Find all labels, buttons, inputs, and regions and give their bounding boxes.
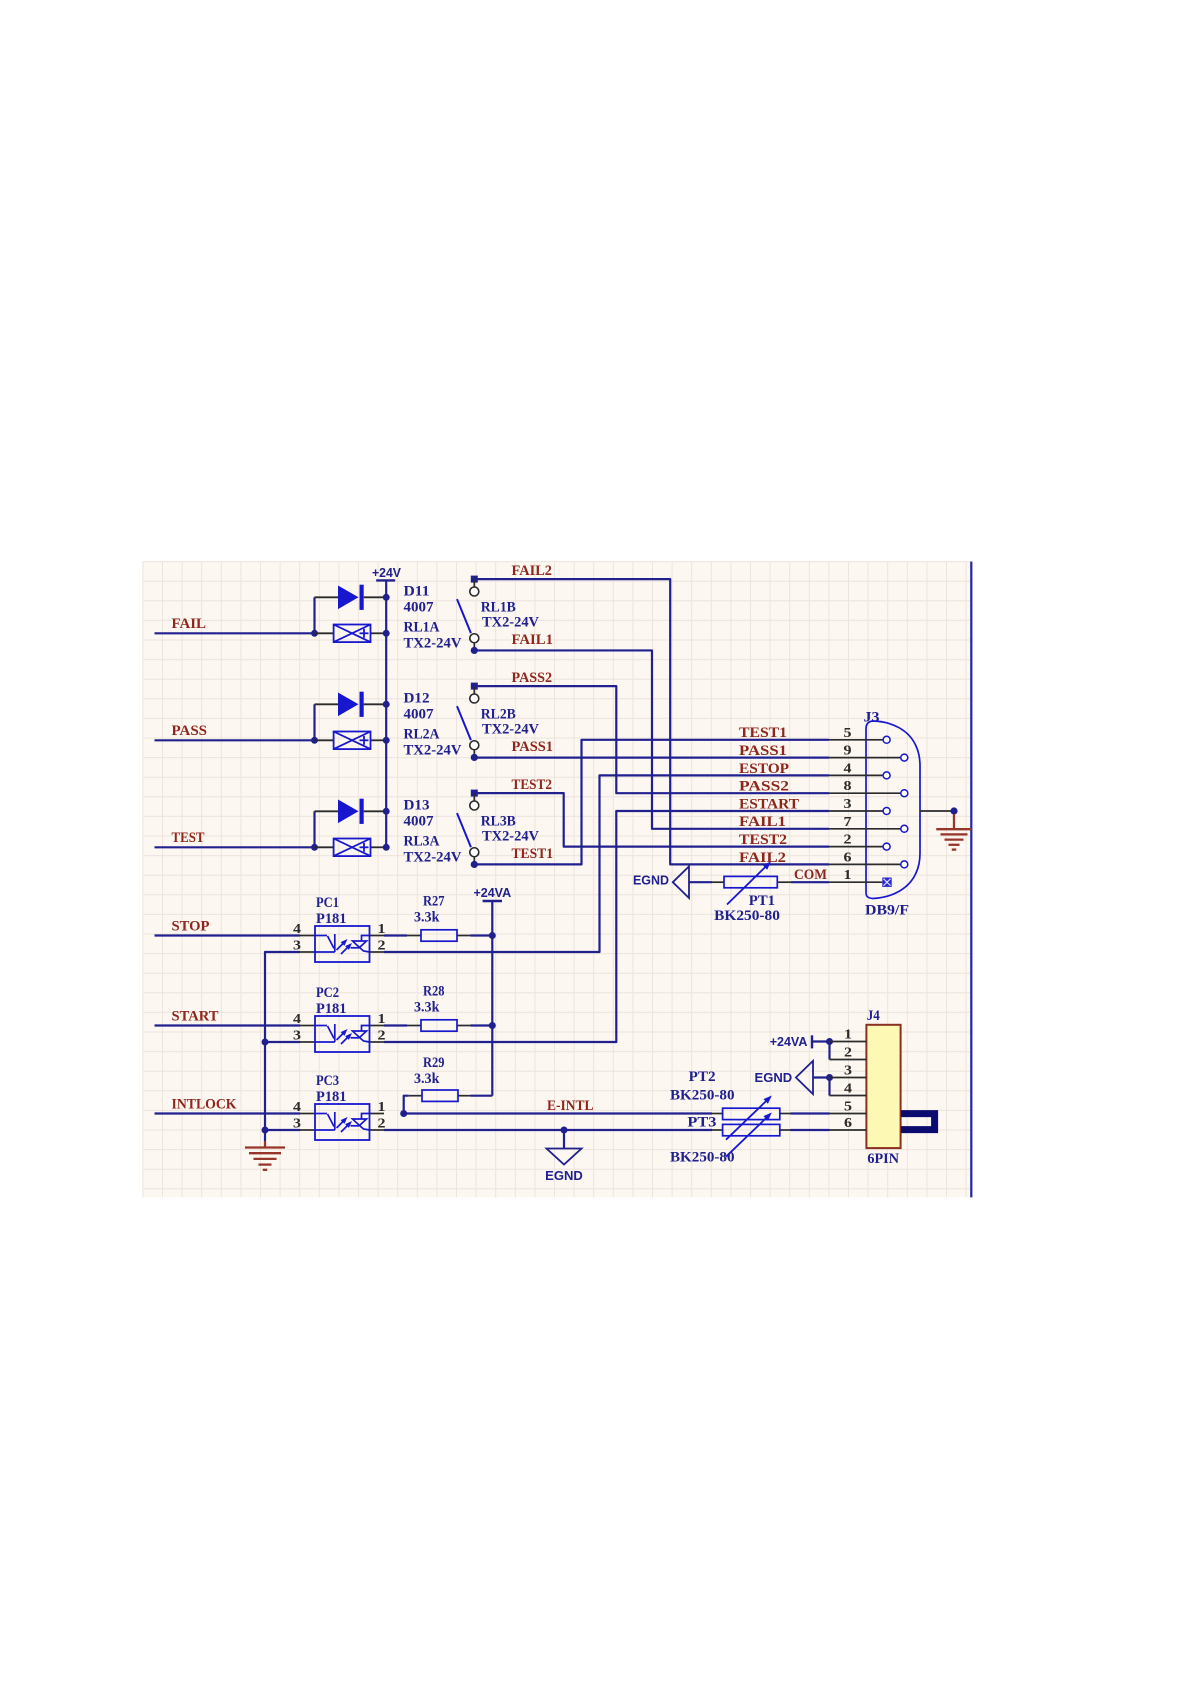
wire PASS input xyxy=(155,739,315,741)
wire EGND to PT1 xyxy=(689,881,712,883)
power EGND (bottom) xyxy=(563,1130,565,1149)
wire PASS diode branch xyxy=(313,704,315,740)
svg-text:TX2-24V: TX2-24V xyxy=(404,850,462,866)
node rail-D11 xyxy=(383,594,390,601)
pin 3 J3 xyxy=(829,797,890,815)
svg-text:PT2: PT2 xyxy=(689,1069,716,1085)
svg-text:8: 8 xyxy=(844,779,852,794)
svg-text:TEST1: TEST1 xyxy=(739,725,787,741)
node TEST junction xyxy=(311,844,318,851)
wire PASS1 xyxy=(474,756,829,758)
wire +24V rail xyxy=(385,580,387,847)
node EGND junction xyxy=(561,1127,568,1134)
varistor PT3 pins xyxy=(712,1129,723,1131)
wire E-INTL tap to R29 xyxy=(404,1096,409,1114)
svg-text:E-INTL: E-INTL xyxy=(547,1098,594,1114)
svg-text:R28: R28 xyxy=(423,984,445,1000)
svg-text:4: 4 xyxy=(293,922,301,937)
svg-text:2: 2 xyxy=(844,1046,852,1061)
wire J3 shield to earth xyxy=(920,810,954,812)
svg-text:PC2: PC2 xyxy=(316,985,339,1001)
wire START input xyxy=(155,1024,301,1026)
opto PC1 box xyxy=(315,926,370,962)
svg-text:P181: P181 xyxy=(316,1089,347,1105)
relay contact RL1B xyxy=(457,576,479,654)
wire EGND to J4 pin3 xyxy=(813,1076,830,1078)
node rail R28 xyxy=(489,1022,496,1029)
svg-text:2: 2 xyxy=(378,939,386,954)
wire INTLOCK input xyxy=(155,1112,301,1114)
svg-text:1: 1 xyxy=(844,868,852,883)
wire PC out to R28 xyxy=(384,1024,407,1026)
svg-text:INTLOCK: INTLOCK xyxy=(172,1096,237,1112)
svg-text:PASS2: PASS2 xyxy=(512,670,553,686)
svg-text:FAIL1: FAIL1 xyxy=(512,632,554,648)
wire PT3 to J4 pin6 xyxy=(791,1129,830,1131)
pin 6 J4 xyxy=(830,1116,867,1131)
svg-text:EGND: EGND xyxy=(545,1168,583,1183)
svg-text:START: START xyxy=(172,1008,219,1024)
opto PC2 LED xyxy=(315,1024,350,1044)
pin 7 J3 xyxy=(829,815,908,833)
varistor PT2 xyxy=(723,1108,780,1119)
wire R29 to +24VA rail xyxy=(471,1095,493,1097)
chassis ground (earth) xyxy=(936,814,972,850)
svg-text:ESTART: ESTART xyxy=(739,796,799,812)
svg-text:EGND: EGND xyxy=(633,873,669,888)
svg-text:+24VA: +24VA xyxy=(473,885,511,900)
svg-text:RL2A: RL2A xyxy=(404,727,440,743)
wire E-INTL xyxy=(404,1112,712,1114)
svg-text:1: 1 xyxy=(378,1100,386,1115)
svg-text:BK250-80: BK250-80 xyxy=(714,908,780,924)
diode D13 pins xyxy=(315,810,339,812)
wire TEST2 xyxy=(474,793,829,847)
svg-text:BK250-80: BK250-80 xyxy=(670,1087,735,1103)
svg-text:J4: J4 xyxy=(867,1008,880,1024)
node PC3 pin3 junction xyxy=(262,1127,269,1134)
pin 2 J3 xyxy=(829,833,890,851)
svg-text:EGND: EGND xyxy=(755,1070,793,1085)
J4 polarization key xyxy=(901,1114,935,1130)
svg-text:3: 3 xyxy=(844,1064,852,1079)
svg-text:D12: D12 xyxy=(404,691,430,707)
pin 5 J3 xyxy=(829,726,890,744)
wire R28 to +24VA rail xyxy=(471,1024,493,1026)
wire STOP input xyxy=(155,934,301,936)
pin 4 J4 xyxy=(830,1082,867,1097)
svg-text:6: 6 xyxy=(844,850,852,865)
svg-text:RL1B: RL1B xyxy=(481,600,516,616)
wire R27 to +24VA rail xyxy=(471,934,493,936)
svg-text:4: 4 xyxy=(844,761,852,776)
node J4 pin3 junction xyxy=(826,1074,833,1081)
svg-text:PT3: PT3 xyxy=(687,1114,716,1130)
node rail-D13 xyxy=(383,808,390,815)
wire FAIL input xyxy=(155,632,315,634)
opto PC1 LED xyxy=(315,934,350,954)
node rail R27 xyxy=(489,932,496,939)
node rail-D12 xyxy=(383,701,390,708)
wire +24VA to J4 pin1 xyxy=(812,1040,830,1042)
svg-text:RL3A: RL3A xyxy=(404,834,440,850)
svg-text:TX2-24V: TX2-24V xyxy=(482,615,539,631)
svg-text:TEST2: TEST2 xyxy=(512,777,553,793)
svg-text:PASS: PASS xyxy=(172,723,208,739)
svg-text:FAIL2: FAIL2 xyxy=(739,850,786,866)
diode D12 pins xyxy=(315,703,339,705)
svg-text:3.3k: 3.3k xyxy=(414,910,440,926)
node FAIL junction xyxy=(311,630,318,637)
svg-text:FAIL2: FAIL2 xyxy=(512,563,553,579)
relay contact RL2B xyxy=(457,683,479,761)
node rail-RL2A xyxy=(383,737,390,744)
svg-text:6PIN: 6PIN xyxy=(867,1151,899,1167)
node earth junction xyxy=(950,807,957,814)
svg-text:RL3B: RL3B xyxy=(481,814,516,830)
svg-text:PT1: PT1 xyxy=(749,893,775,909)
svg-text:+24V: +24V xyxy=(372,565,401,580)
opto PC3 box xyxy=(315,1104,370,1140)
diode D12 xyxy=(338,693,359,717)
wire opto cathodes to ground xyxy=(265,952,300,1141)
svg-text:DB9/F: DB9/F xyxy=(865,903,909,919)
svg-text:4007: 4007 xyxy=(404,600,435,616)
resistor R29 pins xyxy=(409,1095,422,1097)
wire FAIL diode branch xyxy=(313,597,315,633)
wire TEST input xyxy=(155,846,315,848)
svg-text:PASS1: PASS1 xyxy=(739,743,787,759)
svg-text:TEST1: TEST1 xyxy=(512,846,554,862)
wire PASS2 xyxy=(474,686,829,793)
varistor PT1 xyxy=(724,876,777,887)
varistor PT3 xyxy=(723,1124,780,1135)
svg-text:4: 4 xyxy=(844,1082,852,1097)
opto PC3 phototransistor xyxy=(351,1114,370,1131)
connector J3 DB9/F shell xyxy=(866,721,920,899)
chassis ground (optos) xyxy=(245,1141,285,1170)
pin 6 J3 xyxy=(829,850,908,868)
svg-text:PC1: PC1 xyxy=(316,895,339,911)
resistor R28 pins xyxy=(407,1025,421,1027)
opto PC2 pins xyxy=(300,1025,315,1027)
svg-text:STOP: STOP xyxy=(172,918,210,934)
svg-text:PASS1: PASS1 xyxy=(512,739,554,755)
wire PC2 pin3 xyxy=(265,1041,300,1043)
svg-text:R27: R27 xyxy=(423,894,445,910)
relay coil RL1A pins xyxy=(315,632,334,634)
node J4 pin1 junction xyxy=(826,1038,833,1045)
svg-text:P181: P181 xyxy=(316,1001,347,1017)
svg-text:RL2B: RL2B xyxy=(481,707,516,723)
svg-text:3: 3 xyxy=(844,797,852,812)
svg-text:TX2-24V: TX2-24V xyxy=(482,829,539,845)
node E-INTL junction xyxy=(400,1110,407,1117)
resistor R27 xyxy=(421,930,457,941)
svg-text:R29: R29 xyxy=(423,1055,445,1071)
diode D11 pins xyxy=(315,596,339,598)
pin 1 J3 xyxy=(829,868,892,887)
svg-text:4007: 4007 xyxy=(404,707,435,723)
svg-text:D13: D13 xyxy=(404,798,430,814)
svg-text:4: 4 xyxy=(293,1012,301,1027)
relay coil RL3A pins xyxy=(315,846,334,848)
wire ESTART xyxy=(384,811,829,1042)
pin 4 J3 xyxy=(829,761,890,779)
pin 2 J4 xyxy=(830,1046,867,1061)
svg-text:PC3: PC3 xyxy=(316,1073,339,1089)
wire FAIL1 xyxy=(474,650,829,828)
wire COM xyxy=(791,881,829,883)
node rail-RL3A xyxy=(383,844,390,851)
opto PC1 pins xyxy=(300,935,315,937)
svg-text:5: 5 xyxy=(844,1100,852,1115)
svg-text:1: 1 xyxy=(844,1028,852,1043)
wire +24VA rail xyxy=(491,901,493,1096)
relay coil RL3A xyxy=(334,839,371,857)
wire PC3 pin3 xyxy=(265,1129,300,1131)
svg-text:+24VA: +24VA xyxy=(770,1034,808,1049)
wire TEST1 xyxy=(474,740,829,865)
svg-text:6: 6 xyxy=(844,1116,852,1131)
svg-text:TEST2: TEST2 xyxy=(739,832,787,848)
svg-text:FAIL: FAIL xyxy=(172,616,207,632)
svg-text:5: 5 xyxy=(844,726,852,741)
relay coil RL2A pins xyxy=(315,739,334,741)
svg-text:TEST: TEST xyxy=(172,830,205,846)
relay coil RL1A xyxy=(334,625,371,643)
sheet border right xyxy=(970,562,972,1198)
wire PC out to R27 xyxy=(384,934,407,936)
resistor R27 pins xyxy=(407,935,421,937)
pin 1 J4 xyxy=(830,1028,867,1043)
wire PC3 pin2 to PT3 xyxy=(384,1129,712,1131)
node PASS junction xyxy=(311,737,318,744)
svg-text:P181: P181 xyxy=(316,911,347,927)
svg-text:COM: COM xyxy=(794,867,827,883)
resistor R28 xyxy=(421,1020,457,1031)
svg-text:J3: J3 xyxy=(864,710,880,726)
opto PC3 pins xyxy=(300,1113,315,1115)
pin 3 J4 xyxy=(830,1064,867,1079)
svg-text:3.3k: 3.3k xyxy=(414,1000,440,1016)
pin 9 J3 xyxy=(829,744,908,762)
varistor PT2 pins xyxy=(712,1113,723,1115)
svg-text:BK250-80: BK250-80 xyxy=(670,1150,735,1166)
svg-text:TX2-24V: TX2-24V xyxy=(404,636,462,652)
relay contact RL3B xyxy=(457,790,479,868)
opto PC3 LED xyxy=(315,1112,350,1132)
svg-text:D11: D11 xyxy=(404,584,430,600)
svg-text:2: 2 xyxy=(844,833,852,848)
svg-text:7: 7 xyxy=(844,815,852,830)
svg-text:FAIL1: FAIL1 xyxy=(739,814,786,830)
svg-text:ESTOP: ESTOP xyxy=(739,761,789,777)
svg-text:TX2-24V: TX2-24V xyxy=(482,722,539,738)
svg-text:9: 9 xyxy=(844,744,852,759)
svg-text:4007: 4007 xyxy=(404,814,435,830)
svg-text:3.3k: 3.3k xyxy=(414,1071,440,1087)
svg-text:PASS2: PASS2 xyxy=(739,779,789,795)
opto PC2 phototransistor xyxy=(351,1026,370,1043)
opto PC1 phototransistor xyxy=(351,936,370,953)
svg-text:TX2-24V: TX2-24V xyxy=(404,743,462,759)
wire TEST diode branch xyxy=(313,811,315,847)
node PC2 pin3 junction xyxy=(262,1039,269,1046)
varistor PT1 pins xyxy=(712,881,724,883)
wire ESTOP xyxy=(384,775,829,952)
pin 8 J3 xyxy=(829,779,908,797)
wire J4 pin2 strap xyxy=(828,1042,830,1060)
node rail-RL1A xyxy=(383,630,390,637)
svg-text:2: 2 xyxy=(378,1029,386,1044)
wire PT2 to J4 pin5 xyxy=(791,1112,830,1114)
resistor R29 xyxy=(422,1090,458,1101)
diode D13 xyxy=(338,800,359,824)
relay coil RL2A xyxy=(334,732,371,750)
svg-text:RL1A: RL1A xyxy=(404,620,440,636)
schematic sheet background xyxy=(142,562,971,1198)
svg-text:4: 4 xyxy=(293,1100,301,1115)
wire J4 pin4 strap xyxy=(828,1078,830,1096)
diode D11 xyxy=(338,586,359,610)
pin 5 J4 xyxy=(830,1100,867,1115)
wire FAIL2 xyxy=(474,579,829,864)
connector J4 box xyxy=(866,1025,900,1148)
opto PC2 box xyxy=(315,1016,370,1052)
